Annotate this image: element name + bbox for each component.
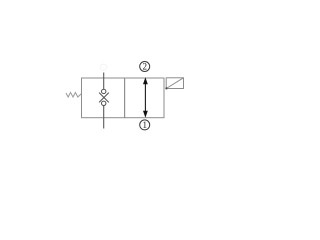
valve envelope right position box — [125, 78, 164, 118]
check valve upper ball — [102, 89, 106, 93]
svg-text:1: 1 — [142, 120, 147, 130]
port 1 label circle — [140, 120, 150, 130]
check valve lower ball — [102, 101, 106, 105]
node junction solenoid corner — [165, 87, 167, 89]
wire top stub of check-valve path — [103, 73, 105, 90]
solenoid S1 — [166, 78, 183, 89]
port 2 label circle — [140, 62, 150, 72]
flow path double arrow in right box — [143, 77, 148, 118]
spring — [66, 92, 82, 97]
valve envelope left position box — [82, 78, 125, 118]
wire bottom stub of check-valve path — [103, 106, 105, 129]
svg-text:2: 2 — [142, 62, 147, 72]
faint ghost circle above left box — [100, 64, 106, 70]
check valve seat X — [99, 93, 109, 103]
